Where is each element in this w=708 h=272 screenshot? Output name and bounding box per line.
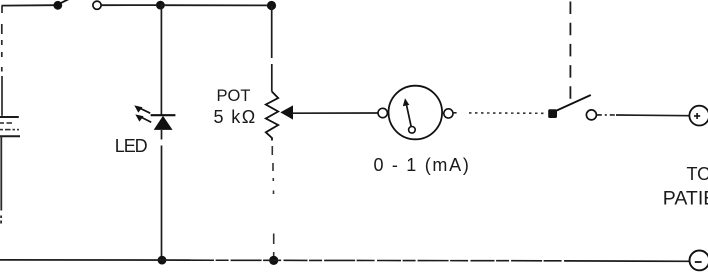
wire POT branch upper xyxy=(271,6,273,92)
wire dotted link meter to switch S2 xyxy=(469,112,545,114)
wire tick right of meter xyxy=(453,112,456,114)
wire switch S2 to plus terminal xyxy=(597,114,690,117)
meter M1 right terminal xyxy=(444,109,453,118)
meter M1 needle xyxy=(403,98,415,133)
wire top horizontal left segment xyxy=(2,4,55,6)
node corner dot top POT branch xyxy=(267,1,276,10)
svg-text:PATIENT: PATIENT xyxy=(663,188,708,210)
terminal minus xyxy=(690,251,708,271)
battery B1 (clipped at left edge) xyxy=(0,117,20,136)
svg-text:5 kΩ: 5 kΩ xyxy=(214,107,257,127)
terminal plus (to patient) xyxy=(689,106,708,126)
wire wiper to meter xyxy=(292,112,378,114)
LED emission arrows xyxy=(134,105,151,122)
mechanical linkage dashed line xyxy=(569,2,571,102)
node junction dot bottom POT branch xyxy=(269,256,278,265)
svg-text:0 - 1 (mA): 0 - 1 (mA) xyxy=(374,155,471,175)
wire left lower lead (faded) xyxy=(0,136,2,223)
svg-text:TO: TO xyxy=(687,164,708,184)
wire LED branch lower xyxy=(161,130,163,260)
svg-text:POT: POT xyxy=(217,87,251,105)
LED D1 xyxy=(151,115,176,129)
meter M1 body xyxy=(389,86,443,140)
node junction dot bottom LED branch xyxy=(158,256,167,265)
wire top horizontal middle segment xyxy=(101,4,160,6)
potentiometer R1 zigzag xyxy=(266,92,278,141)
wire POT branch lower (faded dashes) xyxy=(272,146,273,258)
wire LED branch upper xyxy=(160,5,162,115)
potentiometer wiper arrow xyxy=(280,105,293,119)
svg-text:LED: LED xyxy=(115,136,148,156)
switch S1 xyxy=(53,0,101,10)
meter M1 left terminal xyxy=(378,108,387,117)
wire left vertical lead (faded/dashed) xyxy=(1,6,3,116)
node junction dot top LED branch xyxy=(156,1,165,10)
switch S2 xyxy=(548,95,596,120)
wire top horizontal right segment xyxy=(160,4,271,6)
wire bottom horizontal xyxy=(0,260,690,261)
